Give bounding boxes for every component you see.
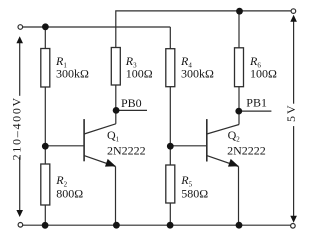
resistor R3 body: [111, 48, 120, 86]
svg-text:580Ω: 580Ω: [181, 186, 208, 200]
node dot Q1 base junction: [42, 143, 49, 150]
wire R2 bottom lead: [44, 205, 46, 225]
node dot PB1: [235, 108, 242, 115]
resistor R2 body: [41, 164, 50, 205]
node dot bottom Q1 emitter: [113, 222, 120, 229]
wire PB0 stub: [116, 109, 147, 111]
node dot bottom R5: [167, 222, 174, 229]
svg-text:210–400V: 210–400V: [10, 96, 24, 160]
wire R3 bottom lead / Q1 collector vertical: [115, 85, 117, 124]
resistor R1 body: [41, 49, 50, 88]
svg-text:PB1: PB1: [246, 95, 267, 109]
wire R6 bottom lead: [238, 87, 240, 111]
wire 210-400V arrow line upper: [19, 42, 21, 96]
transistor Q2 base bar: [206, 119, 208, 161]
wire R1 top lead: [44, 27, 46, 49]
terminal top-right: [291, 9, 296, 14]
wire Q2 collector vertical: [238, 111, 240, 124]
resistor R5 body: [166, 165, 175, 203]
svg-text:300kΩ: 300kΩ: [56, 66, 89, 80]
wire R5 bottom lead: [169, 203, 171, 225]
wire Q1 collector diagonal: [84, 124, 116, 134]
resistor R6 body: [235, 48, 244, 87]
svg-text:100Ω: 100Ω: [126, 66, 153, 80]
wire Q1 emitter diagonal: [84, 156, 115, 167]
svg-text:PB0: PB0: [121, 96, 142, 110]
arrowhead up (5V): [290, 15, 297, 22]
wire 5V arrow line lower: [293, 126, 295, 217]
svg-text:800Ω: 800Ω: [56, 186, 83, 200]
wire R6 top lead: [238, 11, 240, 48]
node dot top rail R1: [42, 23, 49, 30]
svg-text:100Ω: 100Ω: [250, 66, 277, 80]
terminal bottom-right: [291, 224, 296, 229]
wire 210-400V arrow line lower: [19, 157, 21, 211]
arrowhead up (210-400V): [16, 36, 23, 43]
node dot PB0: [113, 107, 120, 114]
wire PB1 stub: [239, 110, 271, 112]
terminal bottom-left: [18, 223, 23, 228]
wire Q1 emitter vertical: [115, 167, 117, 226]
wire top-left rail (210-400V rail): [20, 26, 170, 28]
arrowhead down (5V): [290, 216, 297, 223]
resistor R4 body: [166, 49, 175, 87]
wire R4-R5 middle lead: [169, 87, 171, 165]
wire 5V arrow line upper: [293, 21, 295, 104]
arrowhead down (210-400V): [16, 210, 23, 217]
wire R4 top lead: [169, 27, 171, 49]
Q1 emitter arrowhead: [105, 159, 116, 167]
terminal top-left: [18, 25, 23, 30]
node dot bottom Q2 emitter: [236, 222, 243, 229]
node dot top rail R6: [236, 8, 243, 15]
svg-text:2N2222: 2N2222: [107, 143, 146, 157]
wire R1-R2 middle lead: [44, 87, 46, 164]
Q2 emitter arrowhead: [228, 159, 239, 167]
wire Q2 collector diagonal: [207, 125, 239, 135]
transistor Q1 base bar: [83, 119, 85, 161]
wire Q2 emitter vertical: [238, 167, 240, 226]
node dot bottom R2: [42, 222, 49, 229]
wire Q2 emitter diagonal: [207, 156, 239, 167]
wire top-right rail (5V rail): [116, 11, 294, 48]
wire Q1 base: [45, 145, 84, 147]
svg-text:300kΩ: 300kΩ: [181, 66, 214, 80]
node dot Q2 base junction: [167, 143, 174, 150]
svg-text:2N2222: 2N2222: [227, 143, 266, 157]
wire bottom rail: [20, 224, 293, 226]
svg-text:5V: 5V: [284, 103, 298, 122]
wire Q2 base: [170, 145, 207, 147]
